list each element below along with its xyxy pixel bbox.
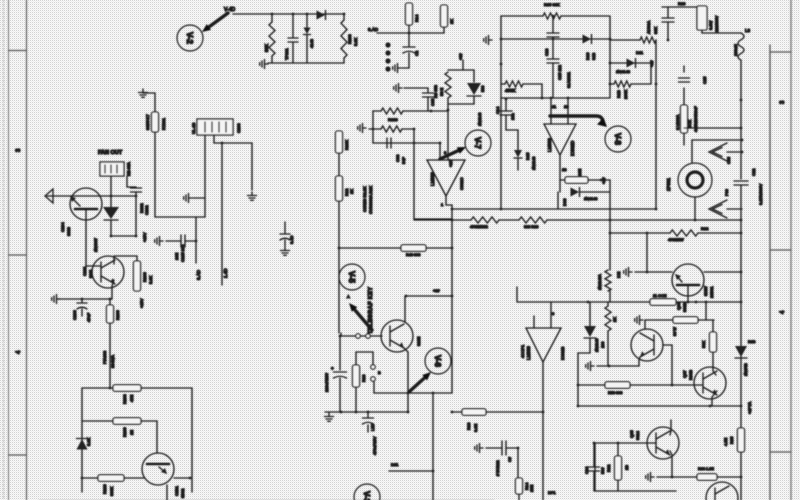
- wire: [213, 135, 215, 143]
- brush chevron upper: [709, 143, 727, 161]
- wire: [517, 130, 519, 150]
- wire: [141, 420, 157, 422]
- junction: [617, 442, 620, 445]
- junction: [740, 219, 743, 222]
- ground: [325, 413, 334, 421]
- svg-text:R23K: R23K: [344, 140, 349, 150]
- svg-text:C2: C2: [414, 50, 419, 56]
- svg-text:+2?: +2?: [601, 176, 606, 184]
- wire: [499, 219, 519, 221]
- ground: [484, 36, 492, 45]
- wire long vertical: [451, 205, 453, 393]
- diode D201: [317, 11, 326, 20]
- wire: [292, 43, 294, 63]
- wire net 1.4D: [221, 143, 223, 285]
- switch contact: [371, 377, 375, 381]
- wire left side of loop: [500, 16, 502, 98]
- diode D208: [304, 28, 311, 35]
- motor M801 inner ring: [687, 172, 703, 188]
- svg-text:R40 360: R40 360: [406, 253, 420, 257]
- svg-text:5.6K: 5.6K: [86, 437, 91, 446]
- wire collector: [704, 271, 741, 273]
- wire mid rail: [82, 420, 113, 422]
- svg-text:R210: R210: [388, 117, 398, 122]
- svg-text:C204: C204: [60, 222, 65, 232]
- ground: [475, 444, 483, 453]
- wire: [343, 14, 345, 20]
- wire inner: [501, 38, 610, 40]
- wire: [650, 63, 652, 84]
- svg-text:470E/1W: 470E/1W: [668, 238, 684, 242]
- junction: [306, 13, 309, 16]
- wire: [111, 235, 136, 237]
- svg-text:R13: R13: [361, 374, 366, 382]
- wire right side of loop: [609, 16, 611, 98]
- junction: [432, 470, 435, 473]
- wire: [222, 142, 252, 144]
- svg-text:2B: 2B: [624, 465, 629, 470]
- resistor R210: [381, 126, 402, 132]
- junction: [355, 411, 358, 414]
- junction: [81, 477, 84, 480]
- wire: [727, 208, 742, 210]
- ground: [393, 64, 401, 73]
- junction: [407, 411, 410, 414]
- op-amp IC302D: [544, 124, 576, 155]
- wire: [110, 176, 112, 207]
- wire: [339, 336, 341, 370]
- capacitor C206 polarized: [77, 303, 87, 309]
- svg-text:UL-2B: UL-2B: [191, 122, 196, 134]
- svg-text:1N4148: 1N4148: [595, 339, 599, 352]
- svg-text:Q05: Q05: [629, 430, 634, 438]
- svg-text:220/300V: 220/300V: [715, 15, 719, 32]
- svg-text:15E: 15E: [529, 485, 534, 492]
- wire: [339, 378, 341, 412]
- wire bottom rail: [595, 490, 676, 492]
- junction: [500, 208, 503, 211]
- svg-text:4.5E: 4.5E: [723, 437, 728, 446]
- wire: [578, 352, 590, 354]
- svg-text:R50 360: R50 360: [608, 391, 622, 395]
- wire: [594, 443, 596, 491]
- junction: [609, 83, 612, 86]
- wire base: [635, 271, 672, 273]
- svg-text:910E: 910E: [416, 336, 421, 346]
- svg-text:C?: C?: [507, 456, 512, 462]
- wire: [486, 411, 543, 413]
- ground: [281, 247, 290, 255]
- svg-text:10E: 10E: [174, 253, 179, 260]
- junction: [740, 99, 743, 102]
- resistor R40: [401, 245, 426, 251]
- svg-text:D11: D11: [636, 50, 644, 55]
- wire motor top rail: [692, 139, 742, 141]
- ground: [248, 192, 257, 200]
- svg-text:1N4007: 1N4007: [93, 237, 98, 252]
- optocoupler UL-2B hatch: [205, 122, 226, 132]
- diode D202: [103, 207, 119, 220]
- junction: [135, 195, 138, 198]
- junction: [740, 271, 743, 274]
- svg-text:C03: C03: [395, 154, 400, 162]
- wire: [717, 476, 741, 478]
- svg-text:C302C: C302C: [459, 177, 464, 190]
- wire net 0.AD tail: [195, 217, 197, 263]
- ferrite bead pad: [385, 42, 390, 47]
- junction: [505, 98, 508, 101]
- wire: [552, 37, 554, 59]
- resistor R33: [697, 474, 717, 480]
- wire: [683, 88, 685, 105]
- wire: [740, 60, 742, 179]
- svg-text:6030: 6030: [66, 226, 71, 236]
- wire: [452, 411, 462, 413]
- wire: [339, 247, 401, 249]
- svg-text:B: B: [378, 370, 381, 375]
- svg-text:3B02: 3B02: [180, 488, 185, 498]
- wire top rail: [82, 387, 113, 389]
- capacitor C214: [131, 188, 142, 192]
- wire emitter: [86, 210, 100, 266]
- svg-text:C203: C203: [236, 123, 241, 133]
- junction: [577, 405, 580, 408]
- wire lower rail of loop: [501, 97, 609, 99]
- wire emitter: [712, 391, 717, 406]
- junction: [593, 442, 596, 445]
- wire: [684, 127, 741, 129]
- wire: [340, 333, 342, 336]
- wire: [251, 143, 253, 190]
- transistor Q5: [647, 427, 679, 459]
- wire: [702, 30, 741, 33]
- junction: [655, 83, 658, 86]
- capacitor C20: [662, 18, 674, 22]
- svg-text:1N4148A: 1N4148A: [598, 274, 602, 290]
- svg-text:0.4D: 0.4D: [289, 235, 294, 244]
- svg-text:ICE: ICE: [617, 271, 621, 278]
- svg-text:1N4148: 1N4148: [532, 157, 536, 170]
- wire: [443, 27, 445, 33]
- svg-text:2K: 2K: [612, 317, 617, 322]
- op-amp IC302C: [427, 160, 465, 196]
- wire: [662, 6, 699, 8]
- wire collector: [670, 420, 671, 435]
- capacitor C14: [500, 111, 512, 115]
- inductor L3: [738, 33, 744, 60]
- svg-text:V-6: V-6: [433, 355, 442, 368]
- transistor Q9: [706, 482, 738, 500]
- svg-text:50K: 50K: [701, 341, 706, 348]
- wire: [667, 22, 669, 40]
- svg-text:C13: C13: [544, 48, 549, 56]
- ferrite bead pad: [385, 50, 390, 55]
- svg-text:R208: R208: [122, 394, 127, 404]
- arrow to V-5: [349, 303, 372, 330]
- wire emitter: [174, 477, 190, 479]
- wire: [505, 115, 507, 130]
- wire rail: [676, 301, 741, 303]
- node V-5: [339, 264, 365, 290]
- svg-text:10n: 10n: [510, 113, 515, 120]
- wire: [473, 70, 475, 82]
- wire emitter: [112, 280, 114, 299]
- resistor R24: [681, 105, 688, 133]
- wire: [518, 494, 520, 500]
- wire: [271, 14, 273, 22]
- node V-6: [425, 348, 451, 374]
- svg-text:0.AD: 0.AD: [196, 269, 201, 280]
- junction: [195, 240, 198, 243]
- wire: [306, 14, 308, 27]
- wire bottom rail: [268, 62, 344, 64]
- svg-text:R233: R233: [347, 34, 352, 44]
- junction: [740, 405, 743, 408]
- ferrite bead pad: [385, 66, 390, 71]
- brush chevron lower inner: [713, 205, 723, 214]
- svg-text:R35: R35: [729, 436, 734, 444]
- wire: [193, 197, 205, 199]
- svg-text:+: +: [331, 366, 334, 371]
- wire: [607, 331, 609, 366]
- wire motor to rail: [694, 197, 696, 220]
- resistor R2B 2K: [605, 306, 611, 331]
- wire: [552, 63, 554, 98]
- motor M801 outer: [678, 163, 712, 197]
- wire emitter: [670, 451, 672, 477]
- wire: [671, 345, 673, 385]
- wire: [82, 477, 98, 479]
- capacitor C205: [288, 38, 298, 42]
- arrow to V-7: [440, 147, 466, 159]
- wire: [589, 338, 591, 353]
- svg-text:903B: 903B: [682, 302, 687, 312]
- wire long right vertical: [740, 220, 742, 500]
- junction: [109, 387, 112, 390]
- resistor R12 1K: [336, 176, 343, 201]
- junction: [367, 411, 370, 414]
- resistor R22 box: [697, 6, 707, 30]
- wire: [462, 60, 464, 70]
- wire: [448, 103, 474, 105]
- junction: [408, 32, 411, 35]
- transistor Q204: [70, 188, 102, 220]
- ground: [52, 295, 60, 304]
- wire: [166, 485, 168, 500]
- svg-text:BCK: BCK: [687, 119, 692, 128]
- svg-text:IC302B: IC302B: [560, 346, 565, 360]
- svg-text:IC302D: IC302D: [570, 140, 575, 156]
- optocoupler UL-2B box: [197, 119, 233, 135]
- wire: [691, 140, 693, 163]
- svg-text:V-8: V-8: [613, 133, 622, 146]
- junction: [600, 179, 603, 182]
- wire: [109, 299, 111, 305]
- wire: [414, 218, 452, 220]
- resistor R213: [353, 365, 360, 387]
- wire: [369, 128, 381, 130]
- wire: [373, 110, 381, 112]
- wire: [367, 425, 369, 432]
- svg-text:D16: D16: [585, 52, 590, 60]
- junction: [695, 301, 698, 304]
- wire: [610, 232, 670, 234]
- svg-text:+1P7A: +1P7A: [747, 402, 752, 414]
- wire: [516, 287, 518, 301]
- arrow to V-6: [410, 372, 431, 391]
- junction: [740, 476, 743, 479]
- wire rail: [517, 301, 649, 303]
- wire: [135, 192, 137, 236]
- svg-text:C25: C25: [702, 76, 707, 84]
- wire: [408, 33, 410, 46]
- wire: [81, 299, 83, 302]
- wire: [609, 180, 611, 270]
- svg-text:+15V: +15V: [139, 298, 144, 308]
- svg-text:C05: C05: [727, 157, 731, 164]
- svg-text:R206: R206: [142, 272, 147, 282]
- junction: [413, 142, 416, 145]
- wire: [577, 353, 579, 406]
- capacitor C215: [181, 235, 185, 247]
- svg-text:V-2: V-2: [185, 32, 194, 45]
- svg-text:0.3W: 0.3W: [708, 20, 713, 30]
- wire: [473, 96, 475, 104]
- wire: [109, 323, 111, 388]
- resistor RT201: [152, 112, 159, 132]
- junction: [655, 208, 658, 211]
- ground: [260, 60, 268, 69]
- wire supply rail: [414, 219, 471, 221]
- svg-text:C14: C14: [495, 106, 500, 114]
- diode D15: [514, 150, 522, 158]
- wire: [698, 232, 741, 234]
- wire: [557, 192, 559, 209]
- svg-text:R32: R32: [606, 464, 611, 472]
- junction: [609, 219, 612, 222]
- svg-text:9014: 9014: [635, 430, 640, 440]
- wire base: [663, 344, 672, 346]
- wire: [374, 392, 452, 394]
- diode D11: [627, 59, 636, 68]
- svg-text:RT201: RT201: [161, 117, 166, 130]
- zener D203: [77, 439, 88, 450]
- svg-text:C24: C24: [584, 466, 589, 474]
- junction: [609, 38, 612, 41]
- capacitor C216 polarized: [280, 234, 290, 240]
- ground: [586, 362, 594, 371]
- svg-text:R14: R14: [414, 14, 419, 22]
- svg-text:30K: 30K: [653, 27, 658, 34]
- junction: [109, 298, 112, 301]
- svg-text:920 R20: 920 R20: [524, 225, 538, 229]
- junction: [271, 13, 274, 16]
- wire: [630, 384, 702, 386]
- resistor R207: [107, 305, 114, 323]
- junction: [451, 208, 454, 211]
- ground: [139, 89, 148, 97]
- junction: [740, 127, 743, 130]
- wire: [452, 208, 656, 210]
- svg-text:+15V: +15V: [142, 232, 147, 242]
- junction: [687, 301, 690, 304]
- wire: [292, 14, 294, 37]
- capacitor C22: [734, 181, 748, 185]
- resistor R215 1K: [441, 5, 448, 27]
- svg-text:1N4/4B: 1N4/4B: [744, 363, 748, 376]
- wire: [559, 180, 561, 192]
- wire: [427, 88, 429, 92]
- wire: [506, 129, 518, 131]
- svg-text:R05 60K: R05 60K: [544, 2, 560, 7]
- junction: [81, 298, 84, 301]
- svg-text:V-4D: V-4D: [224, 7, 236, 13]
- svg-text:56 E: 56 E: [439, 87, 444, 96]
- svg-text:30BT-K7: 30BT-K7: [145, 114, 150, 130]
- resistor 400K: [505, 81, 523, 87]
- wire: [486, 447, 502, 449]
- ground: [646, 473, 654, 482]
- svg-text:200K: 200K: [623, 89, 628, 99]
- wire: [284, 222, 286, 233]
- junction: [372, 128, 375, 131]
- svg-text:C15 112: C15 112: [557, 64, 562, 80]
- svg-text:13: 13: [562, 167, 567, 172]
- wire: [589, 302, 591, 326]
- resistor R14: [516, 478, 523, 494]
- wire: [432, 393, 434, 500]
- junction: [432, 392, 435, 395]
- wire: [141, 387, 192, 389]
- wire: [541, 84, 543, 98]
- wire collector: [114, 256, 137, 264]
- svg-text:R13: R13: [466, 422, 471, 430]
- wire: [610, 83, 614, 85]
- junction: [709, 405, 712, 408]
- brush chevron upper inner: [713, 148, 723, 157]
- svg-text:C22: C22: [751, 168, 756, 176]
- brush chevron lower: [709, 200, 727, 218]
- junction: [447, 109, 450, 112]
- wire: [547, 219, 741, 221]
- junction: [517, 447, 520, 450]
- svg-text:D15: D15: [525, 152, 530, 160]
- diode D06: [571, 188, 580, 197]
- wire: [517, 448, 519, 478]
- wire: [593, 443, 595, 466]
- svg-text:R1B: R1B: [616, 90, 621, 98]
- svg-text:TP201: TP201: [284, 47, 289, 60]
- capacitor C2 polarized: [403, 47, 415, 53]
- junction: [542, 411, 545, 414]
- svg-text:91B: 91B: [591, 53, 596, 60]
- svg-text:R206: R206: [115, 310, 120, 320]
- wire: [631, 83, 651, 85]
- transistor Q203: [381, 320, 413, 352]
- resistor 56E: [445, 72, 451, 98]
- wire collector: [713, 352, 716, 375]
- svg-text:C202: C202: [144, 205, 149, 215]
- svg-text:1K: 1K: [349, 189, 354, 194]
- wire: [712, 320, 714, 332]
- svg-text:+2/7: +2/7: [449, 160, 453, 168]
- wire: [143, 93, 155, 112]
- junction: [451, 219, 454, 222]
- svg-text:R22: R22: [701, 226, 709, 231]
- svg-text:36 W: 36 W: [673, 327, 677, 336]
- junction: [740, 232, 743, 235]
- svg-text:R209: R209: [122, 427, 127, 437]
